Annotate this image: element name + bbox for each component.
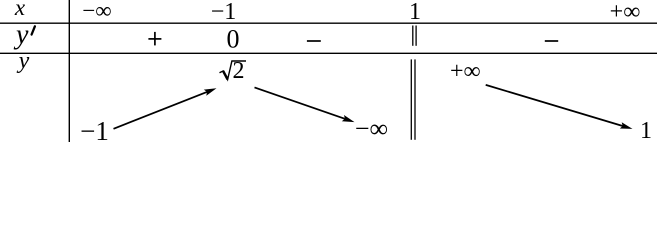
svg-text:+∞: +∞ <box>610 0 641 25</box>
svg-text:−1: −1 <box>80 116 109 145</box>
svg-text:y: y <box>17 48 30 74</box>
svg-text:y: y <box>13 20 29 51</box>
svg-text:0: 0 <box>227 25 240 54</box>
svg-text:x: x <box>14 0 26 20</box>
svg-text:−∞: −∞ <box>82 0 111 23</box>
svg-text:1: 1 <box>409 0 421 25</box>
svg-text:−1: −1 <box>211 0 237 25</box>
svg-text:2: 2 <box>233 58 245 84</box>
svg-text:−∞: −∞ <box>355 114 388 143</box>
svg-text:1: 1 <box>640 118 652 144</box>
svg-text:+∞: +∞ <box>450 59 481 85</box>
